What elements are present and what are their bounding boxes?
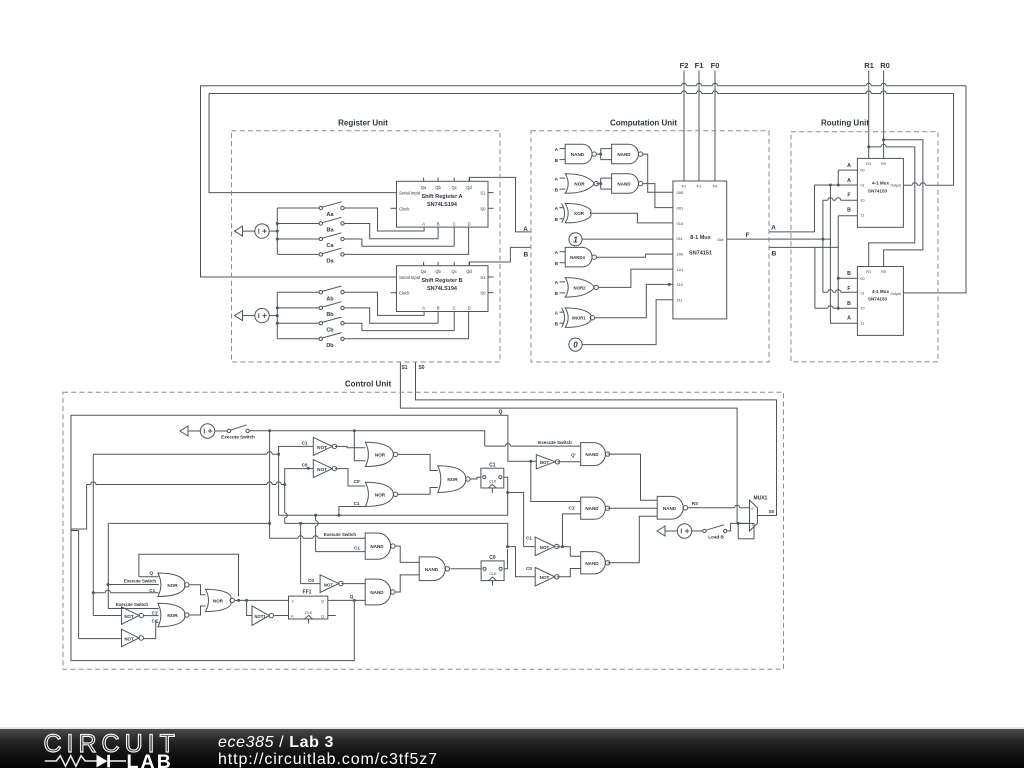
wire switch Aa to register A pin A (344, 208, 424, 231)
svg-text:4-1 Mux: 4-1 Mux (872, 289, 890, 294)
svg-text:Aa: Aa (326, 212, 334, 218)
svg-text:C0: C0 (308, 578, 314, 583)
switch Ca (277, 238, 319, 240)
wire NAND-A out down to big NAND (608, 454, 658, 500)
svg-text:001: 001 (677, 206, 684, 211)
svg-text:8-1 Mux: 8-1 Mux (690, 235, 711, 241)
wire NOT-c1 out to NAND-C top (557, 547, 581, 556)
nand gate NAND-big (657, 496, 683, 519)
wire junction to NOT-c0 input (508, 547, 536, 577)
net C1 riser down to C1 bus line (278, 454, 280, 515)
svg-text:B: B (437, 221, 440, 226)
svg-text:Bb: Bb (326, 312, 334, 318)
wire exec riser into NOR-t1 input (354, 431, 365, 461)
wire NOT-a out to NOR-b (143, 615, 158, 617)
svg-text:10: 10 (861, 307, 865, 311)
svg-text:S0: S0 (480, 291, 486, 296)
svg-text:A: A (523, 226, 528, 233)
svg-text:NOT: NOT (540, 460, 550, 465)
wire FF C1 Q output to C1 bus (504, 477, 508, 515)
flip-flop FF1 Qbar stub (328, 615, 336, 617)
svg-text:A: A (555, 310, 559, 316)
svg-text:Q: Q (350, 594, 354, 599)
wire F1 vertical to 8-1 mux (698, 71, 700, 182)
svg-text:Qb: Qb (435, 185, 441, 190)
svg-text:1: 1 (751, 522, 753, 526)
svg-text:Output: Output (890, 292, 900, 296)
wire NAND-m1 exec input (270, 537, 366, 539)
net F riser (822, 200, 824, 292)
wire source A to switch bus (269, 230, 277, 232)
svg-text:A: A (555, 206, 559, 212)
wire tie both inputs of second gate (599, 153, 602, 156)
flip-flop FF1 clock triangle and stub (305, 615, 313, 619)
nand gate NAND-m3 (419, 557, 445, 581)
svg-text:R0: R0 (881, 270, 886, 274)
svg-text:B: B (555, 261, 559, 267)
switch Da (277, 253, 319, 255)
svg-text:00: 00 (861, 277, 865, 281)
svg-text:F1: F1 (697, 184, 702, 189)
flip-flop C0 box (481, 561, 504, 581)
shift register B S1 stub (488, 276, 494, 278)
wire switch Bb to register B pin B (344, 308, 438, 323)
flip-flop C1 clock triangle and stub (488, 484, 496, 488)
svg-text:11: 11 (861, 322, 865, 326)
wire inner feedback loop: mux1 output to Shift Register A serial input (903, 184, 953, 186)
svg-text:Out: Out (717, 237, 724, 242)
net A wire from register A Qd to computation unit edge (470, 177, 532, 232)
wire switch Ca to register A pin C (344, 227, 454, 246)
wire XOR output to mux input 010 (590, 213, 673, 223)
exec riser left to NOR gates (108, 523, 158, 608)
svg-text:C0: C0 (526, 566, 532, 571)
diode symbol (97, 755, 108, 768)
svg-text:111: 111 (677, 298, 684, 303)
wire MUX1 input 1 to Load B switch (727, 523, 749, 531)
svg-text:B: B (555, 321, 559, 327)
not gate NOT-d C0 (320, 575, 339, 593)
net C1 riser to bottom cluster (92, 454, 94, 615)
wire constant 1 to mux input 011 (582, 238, 673, 240)
shift register A pin Qd (468, 178, 470, 182)
svg-text:A: A (847, 163, 851, 169)
nand gate row2 second stage (612, 174, 639, 194)
svg-text:B: B (555, 217, 559, 223)
wire switch Ba to register A pin B (344, 224, 438, 239)
wire C1 bus into NOR-t2 bottom input (339, 507, 366, 516)
svg-text:C: C (453, 306, 456, 311)
nor gate NOR-t3 (438, 466, 466, 493)
svg-text:Shift Register A: Shift Register A (421, 194, 462, 200)
nor gate NOR-b (158, 603, 185, 627)
svg-text:011: 011 (677, 236, 684, 241)
net Q riser to NOT-u (508, 415, 536, 461)
wire XNOR1 output to mux input 110 (595, 284, 673, 317)
svg-text:D: D (468, 221, 471, 226)
svg-text:NAND: NAND (571, 152, 585, 157)
svg-text:NAND: NAND (585, 506, 599, 511)
wire NOR-c out to FF1 J (235, 599, 289, 601)
wire mux1 input 01 from net A (815, 184, 858, 186)
svg-text:C0: C0 (302, 463, 308, 468)
svg-text:NOR2: NOR2 (574, 285, 587, 290)
svg-text:B: B (555, 158, 559, 164)
svg-text:NOT: NOT (540, 545, 550, 550)
nor gate NOR-t1 (365, 442, 393, 466)
svg-text:B: B (772, 251, 777, 258)
wire FF C0 Q output up to junction (504, 549, 507, 568)
svg-text:NOT: NOT (324, 582, 334, 587)
gate input stubs y=257.2 (560, 251, 566, 253)
svg-text:XNOR1: XNOR1 (571, 316, 586, 321)
switch Ba (277, 223, 319, 225)
wire NOT-c0 out to NAND-C bottom (557, 569, 581, 577)
svg-text:CLK: CLK (305, 611, 313, 615)
svg-text:0: 0 (573, 341, 578, 350)
gate input stubs y=183.6 (560, 177, 566, 179)
4-1 mux SN74153 number 2 box (857, 267, 903, 336)
gate input stubs y=287.4 (560, 281, 566, 283)
wire mux2 input 10 from net B (815, 307, 858, 309)
svg-text:Qb: Qb (435, 269, 441, 274)
svg-text:11: 11 (861, 213, 865, 217)
svg-text:C0: C0 (489, 555, 496, 561)
svg-text:Execute Switch: Execute Switch (116, 602, 149, 607)
source execute switch (180, 426, 188, 436)
svg-text:NOR: NOR (447, 477, 458, 482)
svg-text:F: F (847, 193, 850, 199)
nor gate NOR-c (206, 589, 232, 611)
gate input stubs y=154.1 (560, 148, 566, 150)
svg-text:Q: Q (499, 410, 503, 416)
svg-text:SN74LS194: SN74LS194 (427, 286, 458, 292)
svg-text:B: B (523, 252, 528, 259)
wire F0 vertical to 8-1 mux (714, 71, 716, 182)
wire FF1 Q to NAND-m2 bottom (328, 599, 365, 601)
svg-text:Q: Q (321, 600, 324, 604)
flip-flop C1 box (481, 468, 504, 488)
svg-text:000: 000 (677, 190, 684, 195)
shift register B SN74LS194 box (397, 266, 489, 312)
nor gate row2 first stage (565, 174, 594, 194)
wire C1 to NOT-c1 input (524, 546, 536, 548)
svg-text:00: 00 (861, 169, 865, 173)
nand gate NAND-A (581, 443, 606, 466)
wire switch Da to register A pin D (344, 227, 468, 254)
switch Execute Switch (215, 430, 228, 432)
svg-text:A: A (555, 250, 559, 256)
svg-text:F: F (746, 232, 750, 239)
svg-text:Qa: Qa (421, 185, 427, 190)
net Q feedback loop (71, 415, 508, 660)
svg-text:S0: S0 (769, 509, 775, 514)
source Vb signal input B (235, 311, 243, 321)
net A riser down to mux2 input 11 (830, 185, 857, 323)
svg-text:C1: C1 (149, 588, 155, 593)
svg-text:F2: F2 (680, 61, 689, 70)
svg-text:B: B (847, 301, 851, 307)
svg-text:NAND4: NAND4 (570, 255, 585, 260)
wire switch Ab to register B pin A (344, 292, 424, 315)
svg-text:SN74LS194: SN74LS194 (427, 202, 458, 208)
svg-text:Qc: Qc (452, 185, 457, 190)
svg-text:Execute Switch: Execute Switch (124, 578, 157, 583)
svg-text:S1: S1 (401, 365, 407, 371)
svg-text:Qc: Qc (452, 269, 457, 274)
svg-text:CLK: CLK (489, 572, 497, 576)
4-1 mux SN74153 number 1 box (857, 158, 903, 227)
svg-text:S0: S0 (480, 206, 486, 211)
svg-text:A: A (422, 221, 425, 226)
wire R1 branch to mux2 R1 pin (867, 145, 870, 148)
svg-text:NOR: NOR (375, 492, 386, 497)
wire constant 0 to mux input 111 (582, 300, 673, 345)
wire NOR-a out to NOR-c (189, 585, 206, 595)
switch Bb (277, 307, 319, 309)
wire NAND-m1 out to NAND-m3 (395, 546, 419, 562)
svg-text:F0: F0 (711, 61, 720, 70)
svg-text:LAB: LAB (127, 751, 173, 768)
svg-text:C1: C1 (302, 440, 308, 445)
wire mux1 input 00 stub tied to net A (838, 170, 857, 185)
nand gate NAND-m2 (365, 579, 390, 605)
svg-text:Clock: Clock (399, 206, 410, 211)
svg-text:XOR: XOR (574, 211, 585, 216)
shift register A S0 stub (488, 207, 494, 209)
svg-text:Shift Register B: Shift Register B (421, 278, 462, 284)
not gate NOT-c1 (535, 537, 555, 556)
svg-text:Serial Input: Serial Input (399, 275, 421, 280)
net C0' riser to NOT-b (71, 531, 122, 639)
shift register A pin Qc (453, 178, 455, 182)
svg-text:Control Unit: Control Unit (345, 380, 392, 389)
svg-text:NAND: NAND (425, 567, 439, 572)
svg-text:NAND: NAND (370, 590, 384, 595)
svg-text:C: C (453, 221, 456, 226)
svg-text:NAND: NAND (585, 452, 599, 457)
wire C1 into NOR-a bottom (93, 592, 158, 594)
wire mux2 input 00 stub (838, 277, 857, 279)
net C1 bus line y=515.3 (279, 514, 508, 516)
svg-text:NOR: NOR (375, 452, 386, 457)
nand gate NAND4 (565, 247, 592, 267)
svg-text:NOT: NOT (317, 467, 327, 472)
svg-text:RS: RS (692, 501, 698, 506)
svg-text:R1: R1 (864, 61, 874, 70)
svg-text:Computation Unit: Computation Unit (610, 119, 677, 128)
switch Cb (277, 322, 319, 324)
svg-text:F1: F1 (695, 61, 704, 70)
svg-text:B: B (847, 271, 851, 277)
nand gate NAND-m1 (365, 533, 390, 559)
svg-text:Output: Output (890, 184, 900, 188)
shift register A pin Qb (437, 178, 439, 182)
svg-text:D: D (468, 306, 471, 311)
wire mux1 input 11 to mux2 input 00 tie (838, 216, 857, 308)
wire exec feedback line to left riser (108, 522, 269, 524)
routing unit dashed boundary (791, 132, 938, 362)
wire row2 output to mux input 001 (643, 184, 673, 208)
svg-text:R1: R1 (866, 162, 871, 166)
switch Aa (277, 207, 319, 209)
net Q feedback from NOR-c into NOR-a top (139, 554, 239, 596)
wire NOR-t3 out to FF C1 D input (470, 477, 481, 479)
wire C1 riser into NOT-a (93, 615, 121, 617)
svg-text:S0: S0 (418, 365, 424, 371)
nor gate NOR2 (565, 278, 594, 298)
svg-text:Clock: Clock (399, 291, 410, 296)
source Load B (657, 526, 665, 536)
svg-text:A: A (555, 280, 559, 286)
svg-text:C1: C1 (489, 462, 496, 468)
flip-flop FF1 box (289, 596, 328, 619)
net B riser down from B line (814, 247, 816, 308)
wire NOR-b out to NOR-c (189, 606, 206, 615)
svg-text:CLK: CLK (489, 479, 497, 483)
shift register B S0 stub (488, 292, 494, 294)
resistor symbol (45, 756, 97, 766)
svg-text:Qd: Qd (466, 185, 472, 190)
svg-text:Q': Q' (571, 453, 576, 458)
svg-text:01: 01 (861, 184, 865, 188)
svg-text:Cb: Cb (326, 327, 334, 333)
execute net riser down to NAND-m1 (269, 431, 271, 539)
svg-text:A: A (771, 225, 776, 232)
shift register B clock stub (391, 292, 397, 294)
svg-text:A: A (847, 316, 851, 322)
not gate NOT-a C1' (122, 607, 140, 625)
wire mux1 input 10 from net F riser (823, 199, 858, 201)
svg-text:NAND: NAND (617, 182, 631, 187)
wire R0 branch to mux2 R0 pin (882, 138, 885, 141)
shift register A clock stub (391, 207, 397, 209)
svg-text:F: F (847, 286, 850, 292)
svg-text:C1: C1 (354, 546, 360, 551)
svg-text:01: 01 (861, 292, 865, 296)
nand gate NAND-B (581, 497, 606, 519)
net F wire from mux Out into routing unit (727, 238, 831, 240)
svg-text:110: 110 (677, 282, 684, 287)
wire NOT1 out to FF1 K (275, 615, 289, 617)
shift register B pin Qb (437, 262, 439, 266)
svg-text:NOR: NOR (167, 583, 178, 588)
wire R1 vertical to 4-1 mux R1 pin (868, 71, 870, 159)
net S1 wire register unit to control unit MUX1 (400, 362, 737, 523)
gate input stubs y=213.2 (560, 207, 564, 209)
svg-text:Ba: Ba (326, 228, 334, 234)
svg-text:Execute Switch: Execute Switch (324, 532, 357, 537)
svg-text:C1': C1' (569, 506, 576, 511)
switch Db (277, 338, 319, 340)
net C1 feedback horizontal (93, 453, 278, 455)
svg-text:NOT: NOT (124, 637, 134, 642)
svg-text:K: K (291, 615, 294, 619)
svg-text:C1: C1 (354, 501, 360, 506)
svg-text:Ab: Ab (326, 296, 334, 302)
svg-text:Execute Switch: Execute Switch (221, 435, 255, 440)
not gate NOT-t2 C0 (313, 460, 332, 478)
svg-text:101: 101 (677, 267, 684, 272)
xnor gate XNOR1 (565, 308, 591, 328)
net A riser up from A line (814, 185, 816, 232)
net Q branch to NAND-B (531, 461, 581, 501)
wire NOT-d input stub (301, 583, 321, 585)
svg-text:B: B (555, 187, 559, 193)
svg-text:SN74151: SN74151 (689, 251, 712, 257)
svg-text:F2: F2 (682, 184, 687, 189)
shift register A SN74LS194 box (397, 181, 489, 227)
wire NOR-t1 out to NOR-t3 (398, 454, 438, 470)
svg-text:0: 0 (751, 507, 753, 511)
wire R0 vertical to 4-1 mux R0 pin (883, 71, 885, 159)
footer title (218, 734, 334, 752)
svg-text:Qa: Qa (421, 269, 427, 274)
not gate NOT-c0 (535, 568, 555, 587)
svg-text:Load B: Load B (708, 534, 724, 539)
wire execute switch net top (249, 431, 484, 446)
svg-text:Db: Db (326, 343, 334, 349)
flip-flop C0 clock triangle and stub (489, 577, 497, 581)
svg-text:Serial Input: Serial Input (399, 191, 421, 196)
svg-text:100: 100 (677, 252, 684, 257)
svg-text:S1: S1 (480, 275, 486, 280)
xor gate XOR (565, 203, 591, 223)
net C0 jog to NOT-t2 (285, 469, 314, 485)
svg-text:R0: R0 (881, 162, 886, 166)
net C0 riser down to C0 bus line (284, 485, 286, 524)
svg-text:NOR: NOR (574, 182, 585, 187)
net B wire from register B Qd to computation unit edge (470, 247, 532, 265)
svg-text:C0': C0' (354, 479, 361, 484)
svg-text:1: 1 (573, 235, 578, 244)
svg-text:C0': C0' (152, 618, 159, 623)
wire NOT-u out to NAND-A (558, 461, 581, 463)
svg-text:Register Unit: Register Unit (338, 119, 388, 128)
svg-text:NAND: NAND (663, 506, 677, 511)
register unit dashed boundary (232, 131, 501, 362)
svg-text:Q: Q (321, 615, 324, 619)
wire NOT-d out to NAND-m2 (341, 583, 365, 585)
nor gate NOR-a (158, 573, 185, 597)
svg-text:NOT1: NOT1 (254, 614, 266, 619)
svg-text:Q: Q (150, 570, 154, 575)
svg-text:R1: R1 (866, 270, 871, 274)
svg-text:NOT: NOT (317, 445, 327, 450)
net C0 feedback horizontal (87, 484, 285, 486)
not gate NOT-u Q' (536, 455, 555, 469)
svg-text:A: A (555, 176, 559, 182)
svg-text:010: 010 (677, 221, 684, 226)
wire NOT-t2 to NOR-t2 (335, 469, 366, 486)
svg-text:Ca: Ca (326, 243, 334, 249)
svg-text:A: A (422, 306, 425, 311)
nand gate row1 second stage (612, 144, 639, 164)
wire NOT-t1 to NOR-t1 (335, 446, 366, 447)
svg-text:C1: C1 (526, 536, 532, 541)
svg-text:S1: S1 (480, 191, 486, 196)
svg-text:B: B (437, 306, 440, 311)
wire switch Cb to register B pin C (344, 312, 454, 331)
svg-text:Qd: Qd (466, 269, 472, 274)
nand gate row1 first stage (565, 144, 592, 164)
svg-text:NAND: NAND (617, 152, 631, 157)
computation unit dashed boundary (531, 131, 769, 362)
shift register B pin Qa (423, 262, 425, 266)
wire NAND-m3 out to FF C0 (451, 568, 482, 570)
svg-text:NOR: NOR (167, 613, 178, 618)
net A wire into routing unit (769, 231, 815, 233)
